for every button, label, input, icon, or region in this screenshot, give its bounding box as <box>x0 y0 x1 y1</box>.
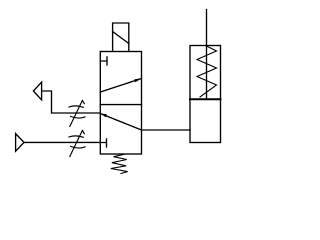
valve position divider <box>100 104 141 106</box>
throttle valve F2 arcs <box>69 136 85 148</box>
throttle F1 adjustment arrow <box>70 100 85 126</box>
cylinder C1 body <box>190 46 221 143</box>
valve V1 body <box>100 52 141 155</box>
actuator diagonal lever line <box>113 32 129 44</box>
wire from exhaust triangle to valve left port (with jog) <box>42 91 101 113</box>
wire from source triangle to valve left port <box>24 141 100 143</box>
exhaust triangle (left-pointing) <box>33 82 41 100</box>
throttle valve F1 arcs <box>69 106 85 118</box>
bottom cell flow arrow <box>100 114 141 131</box>
cylinder piston <box>190 98 221 100</box>
wire from valve right port to cylinder <box>142 129 191 131</box>
bottom cell arrowhead <box>100 114 107 118</box>
throttle F2 adjustment arrow <box>70 130 85 156</box>
source triangle (right-pointing) <box>16 134 24 152</box>
actuator box (pilot) on valve top <box>113 23 129 52</box>
cylinder piston rod <box>206 10 208 99</box>
cylinder return spring <box>197 46 217 97</box>
valve return spring (below valve) <box>111 154 128 173</box>
top cell arrowhead <box>134 79 141 83</box>
top cell blocked port T <box>100 57 107 65</box>
top cell flow arrow <box>100 79 141 93</box>
bottom cell blocked port T <box>100 139 106 147</box>
